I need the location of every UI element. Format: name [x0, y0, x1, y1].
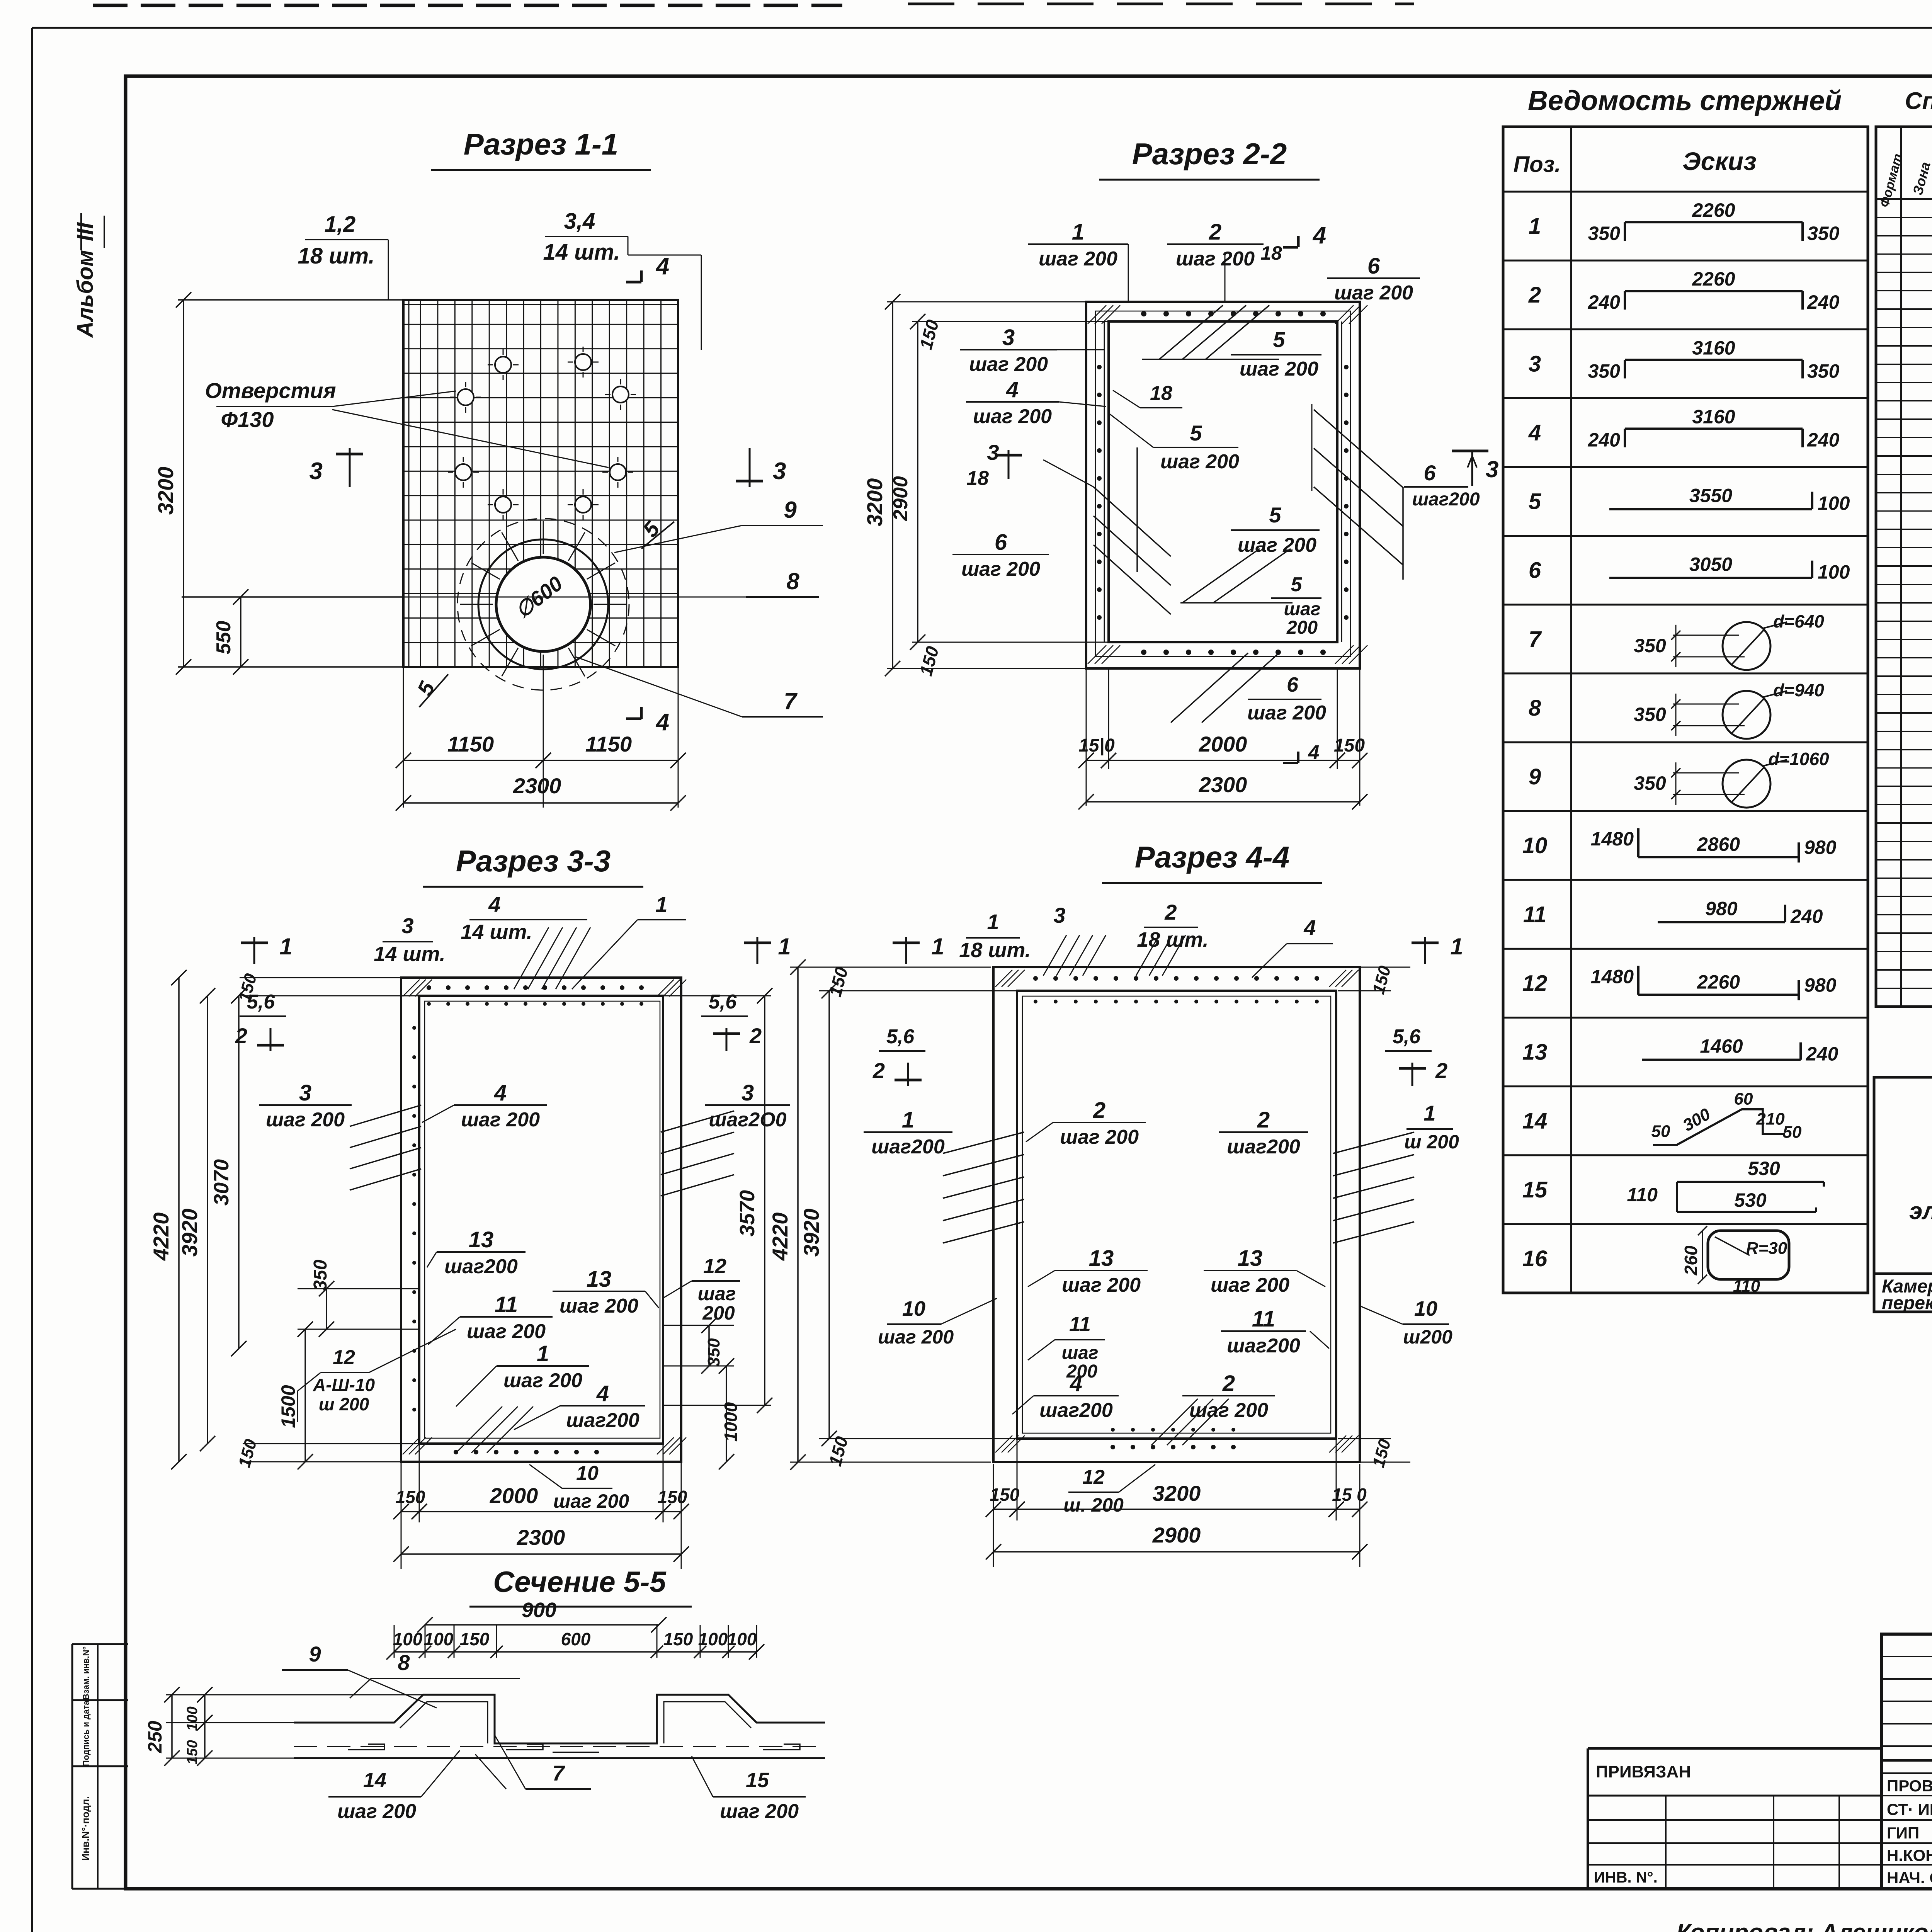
svg-text:Альбом: Альбом — [73, 250, 98, 338]
section 2-2 bottom inner bundle — [1182, 549, 1260, 603]
svg-text:3920: 3920 — [177, 1209, 202, 1257]
svg-text:5: 5 — [1269, 503, 1281, 527]
svg-text:1480: 1480 — [1591, 828, 1634, 850]
svg-text:3160: 3160 — [1692, 406, 1735, 427]
svg-text:1: 1 — [279, 934, 292, 959]
svg-text:100: 100 — [1818, 493, 1850, 514]
svg-text:150: 150 — [396, 1487, 425, 1507]
svg-text:4: 4 — [494, 1080, 507, 1105]
bar sketch pos 4 — [1624, 429, 1626, 447]
svg-text:шаг 200: шаг 200 — [878, 1326, 954, 1348]
section 3-3 bottom dims — [401, 1463, 402, 1569]
section 4-4 left dims — [790, 967, 991, 968]
table Vedomost sterzhney grid — [1503, 127, 1868, 1293]
svg-text:350: 350 — [1634, 704, 1666, 725]
svg-text:980: 980 — [1804, 974, 1837, 996]
section 4-4 bottom dims — [993, 1464, 994, 1567]
section 1-1 bottom dims — [403, 667, 404, 808]
section 2-2 rebar dots top and bottom — [1141, 311, 1146, 316]
svg-text:15|0: 15|0 — [1078, 735, 1115, 756]
svg-text:элемента: элемента — [1909, 1198, 1932, 1225]
svg-text:4: 4 — [1303, 915, 1316, 940]
svg-text:шаг 200: шаг 200 — [973, 405, 1052, 428]
svg-text:шаг200: шаг200 — [1412, 489, 1480, 510]
svg-text:1: 1 — [902, 1107, 914, 1133]
svg-text:100: 100 — [1818, 561, 1850, 583]
svg-text:3: 3 — [1486, 456, 1498, 482]
section 1-1 cut mark 3 left — [349, 448, 351, 487]
bar sketch pos 12 — [1637, 966, 1639, 995]
svg-text:900: 900 — [522, 1599, 556, 1622]
svg-text:7: 7 — [552, 1761, 565, 1785]
svg-text:2: 2 — [1257, 1107, 1270, 1133]
svg-text:ИНВ. N°.: ИНВ. N°. — [1594, 1869, 1658, 1886]
section 1-1 dim 550 — [182, 596, 403, 598]
svg-text:4220: 4220 — [149, 1213, 173, 1261]
svg-text:шаг 200: шаг 200 — [1240, 358, 1318, 380]
svg-text:150: 150 — [990, 1485, 1020, 1505]
bar sketch pos 14 (bent bar) — [1653, 1109, 1785, 1145]
svg-text:Инв.N°·подл.: Инв.N°·подл. — [80, 1796, 91, 1861]
svg-text:Подпись и дата: Подпись и дата — [81, 1700, 91, 1766]
svg-text:2260: 2260 — [1692, 268, 1735, 290]
svg-text:3200: 3200 — [862, 478, 887, 527]
bar sketch pos 16 (plate R=30) — [1708, 1231, 1789, 1279]
svg-text:шаг 200: шаг 200 — [461, 1109, 540, 1131]
section 1-1 center line through circle — [241, 597, 802, 598]
svg-text:шаг 200: шаг 200 — [1238, 534, 1316, 556]
section 3-3 right dim 3570 — [664, 995, 771, 997]
svg-text:5: 5 — [1291, 573, 1303, 596]
svg-text:ш200: ш200 — [1403, 1326, 1452, 1348]
section 1-1 slab with mesh — [403, 300, 678, 667]
svg-text:Разрез 4-4: Разрез 4-4 — [1135, 840, 1289, 874]
svg-text:3: 3 — [401, 913, 413, 938]
svg-text:шаг 200: шаг 200 — [1247, 702, 1326, 724]
section 4-4 wall box — [993, 967, 1360, 1462]
svg-text:350: 350 — [1634, 635, 1666, 656]
svg-text:4: 4 — [1006, 377, 1019, 402]
bar sketch pos 1 — [1624, 222, 1626, 241]
svg-text:3050: 3050 — [1689, 554, 1732, 575]
svg-text:1: 1 — [1072, 219, 1084, 245]
svg-text:шаг 200: шаг 200 — [1176, 248, 1255, 270]
svg-text:4220: 4220 — [768, 1213, 792, 1261]
svg-text:3160: 3160 — [1692, 337, 1735, 359]
section 2-2 wall box — [1086, 302, 1360, 668]
svg-text:шаг 200: шаг 200 — [503, 1369, 582, 1392]
section 2-2 left bundle diagonals — [1094, 487, 1171, 556]
svg-text:350: 350 — [1634, 772, 1666, 794]
svg-text:110: 110 — [1733, 1277, 1760, 1296]
svg-text:2000: 2000 — [490, 1483, 538, 1508]
svg-text:10: 10 — [902, 1297, 925, 1320]
svg-text:4: 4 — [1312, 222, 1326, 249]
svg-text:1150: 1150 — [585, 732, 632, 756]
svg-text:3: 3 — [987, 440, 999, 464]
svg-text:7: 7 — [1529, 627, 1542, 652]
svg-text:18: 18 — [1150, 382, 1172, 405]
svg-text:200: 200 — [702, 1302, 735, 1324]
svg-text:2: 2 — [1164, 900, 1177, 924]
section 2-2 below bundle — [1171, 653, 1248, 723]
svg-text:350: 350 — [1588, 223, 1621, 244]
svg-text:1: 1 — [931, 934, 944, 959]
svg-text:50: 50 — [1651, 1122, 1670, 1141]
bar sketch pos 13 — [1642, 1059, 1801, 1061]
svg-text:2900: 2900 — [1152, 1523, 1201, 1547]
svg-text:3070: 3070 — [210, 1159, 233, 1206]
svg-text:18 шт.: 18 шт. — [1137, 928, 1208, 951]
svg-text:шаг200: шаг200 — [871, 1136, 945, 1158]
section 4-4 corner hatch — [995, 970, 1012, 987]
section 5-5 small hooks — [348, 1744, 384, 1750]
svg-text:350: 350 — [310, 1260, 331, 1291]
svg-text:10: 10 — [1414, 1297, 1437, 1320]
svg-text:шаг 200: шаг 200 — [1039, 248, 1117, 270]
svg-text:3200: 3200 — [1153, 1481, 1201, 1505]
svg-text:12: 12 — [1522, 971, 1548, 996]
section 4-4 top rebar dots two rows — [1033, 976, 1038, 981]
title block — [1881, 1634, 1932, 1889]
svg-text:2: 2 — [1528, 282, 1541, 308]
svg-text:240: 240 — [1790, 905, 1823, 927]
svg-text:4: 4 — [655, 709, 669, 736]
svg-text:3570: 3570 — [736, 1190, 759, 1236]
svg-text:1: 1 — [778, 934, 791, 959]
svg-text:3920: 3920 — [799, 1209, 823, 1257]
section 2-2 bottom dims — [1086, 668, 1087, 806]
svg-text:240: 240 — [1588, 429, 1621, 451]
svg-text:3: 3 — [310, 458, 323, 485]
svg-text:Спецификация арматурных издели: Спецификация арматурных изделий камеры, … — [1905, 88, 1932, 114]
svg-text:150: 150 — [184, 1740, 201, 1764]
svg-text:12: 12 — [1082, 1466, 1105, 1488]
svg-text:50: 50 — [1783, 1123, 1802, 1142]
svg-text:d=1060: d=1060 — [1768, 749, 1829, 769]
svg-text:10: 10 — [576, 1462, 599, 1485]
section 1-1 cut mark 4 bottom — [640, 707, 643, 719]
svg-text:14 шт.: 14 шт. — [374, 942, 445, 966]
section 2-2 right bundle — [1314, 410, 1403, 488]
svg-text:шаг 200: шаг 200 — [969, 353, 1048, 376]
svg-text:100: 100 — [393, 1629, 423, 1649]
svg-text:5,6: 5,6 — [709, 991, 737, 1013]
svg-text:Н.КОНТР: Н.КОНТР — [1887, 1846, 1932, 1864]
svg-text:3,4: 3,4 — [564, 209, 595, 234]
svg-text:Копировал: Алешикова: Копировал: Алешикова — [1676, 1919, 1932, 1932]
svg-text:150: 150 — [460, 1629, 490, 1649]
svg-text:530: 530 — [1734, 1189, 1767, 1211]
svg-text:240: 240 — [1807, 429, 1840, 451]
bar sketch pos 10 — [1637, 828, 1639, 857]
svg-text:2: 2 — [1209, 219, 1221, 245]
svg-text:18: 18 — [1260, 242, 1282, 264]
svg-text:d=940: d=940 — [1773, 680, 1824, 700]
svg-text:110: 110 — [1627, 1184, 1658, 1206]
svg-text:11: 11 — [1523, 902, 1546, 927]
svg-text:3550: 3550 — [1689, 485, 1732, 507]
svg-text:ш 200: ш 200 — [319, 1394, 369, 1414]
svg-text:R=30: R=30 — [1746, 1239, 1787, 1258]
svg-text:980: 980 — [1705, 898, 1738, 919]
svg-text:3: 3 — [1002, 325, 1015, 350]
svg-text:9: 9 — [1529, 764, 1541, 789]
svg-text:12: 12 — [333, 1346, 355, 1369]
svg-text:11: 11 — [1069, 1313, 1091, 1336]
section 3-3 left bundle — [350, 1105, 421, 1126]
svg-text:ш. 200: ш. 200 — [1063, 1494, 1124, 1516]
svg-text:2300: 2300 — [517, 1525, 565, 1549]
section 3-3 top rebar dots — [427, 985, 431, 990]
svg-text:шаг 200: шаг 200 — [266, 1109, 345, 1131]
svg-text:14 шт.: 14 шт. — [543, 240, 620, 265]
svg-text:1460: 1460 — [1700, 1036, 1743, 1057]
svg-text:шаг 200: шаг 200 — [1062, 1274, 1141, 1296]
svg-text:шаг 200: шаг 200 — [961, 558, 1040, 580]
svg-text:11: 11 — [1252, 1306, 1275, 1332]
svg-text:60: 60 — [1734, 1090, 1753, 1109]
svg-text:4: 4 — [1308, 742, 1320, 764]
svg-text:НАЧ. ОТА: НАЧ. ОТА — [1887, 1869, 1932, 1887]
svg-text:150: 150 — [1334, 735, 1365, 756]
svg-text:3: 3 — [1053, 903, 1065, 927]
svg-text:шаг200: шаг200 — [1039, 1399, 1113, 1422]
svg-text:100: 100 — [698, 1629, 728, 1649]
svg-text:1: 1 — [655, 892, 667, 917]
bar sketch pos 5 — [1609, 508, 1812, 510]
svg-text:6: 6 — [1367, 253, 1380, 279]
bar sketch pos 3 — [1624, 360, 1626, 378]
svg-text:1480: 1480 — [1591, 966, 1634, 987]
svg-text:8: 8 — [1529, 696, 1541, 721]
section 2-2 top diagonal bundle — [1159, 305, 1223, 359]
svg-text:1,2: 1,2 — [325, 212, 356, 237]
svg-text:1150: 1150 — [447, 732, 494, 756]
svg-text:Ф130: Ф130 — [221, 407, 274, 432]
svg-text:шаг200: шаг200 — [1227, 1335, 1300, 1357]
section 1-1 small holes d130 — [495, 357, 511, 373]
svg-text:3: 3 — [299, 1080, 311, 1105]
section 4-4 cut marks 1 — [905, 937, 907, 964]
svg-text:8: 8 — [786, 568, 799, 594]
svg-text:1500: 1500 — [277, 1385, 299, 1428]
svg-text:Разрез 2-2: Разрез 2-2 — [1132, 137, 1287, 171]
svg-text:14: 14 — [363, 1769, 386, 1792]
svg-text:550: 550 — [213, 621, 235, 655]
svg-text:2: 2 — [1093, 1098, 1105, 1123]
table steel consumption grid — [1874, 1077, 1932, 1312]
section 3-3 wall box — [401, 978, 681, 1462]
svg-text:шаг200: шаг200 — [1227, 1136, 1300, 1158]
svg-text:Сечение 5-5: Сечение 5-5 — [493, 1566, 667, 1599]
svg-text:6: 6 — [1423, 461, 1436, 485]
svg-text:350: 350 — [1807, 360, 1840, 382]
svg-text:13: 13 — [1522, 1040, 1548, 1065]
svg-text:3: 3 — [773, 458, 786, 485]
svg-text:5: 5 — [1529, 489, 1541, 514]
svg-text:d=640: d=640 — [1773, 611, 1824, 631]
svg-text:260: 260 — [1681, 1245, 1701, 1276]
section 3-3 cut marks 1 top — [253, 937, 255, 964]
svg-text:2260: 2260 — [1697, 971, 1740, 993]
svg-text:4: 4 — [1528, 420, 1541, 445]
svg-text:переключения: переключения — [1882, 1293, 1932, 1313]
section 1-1 cut mark 3 right — [749, 448, 751, 487]
svg-text:2260: 2260 — [1692, 199, 1735, 221]
svg-text:240: 240 — [1807, 291, 1840, 313]
left margin stamp boxes — [72, 1643, 128, 1645]
svg-text:Эскиз: Эскиз — [1682, 147, 1757, 175]
svg-text:Взам. инв.N°: Взам. инв.N° — [81, 1646, 91, 1700]
svg-text:шаг 200: шаг 200 — [560, 1295, 638, 1317]
svg-text:15: 15 — [746, 1769, 769, 1792]
svg-text:2: 2 — [1435, 1058, 1447, 1083]
svg-text:11: 11 — [495, 1292, 518, 1317]
svg-text:А-Ш-10: А-Ш-10 — [313, 1375, 375, 1395]
svg-text:18 шт.: 18 шт. — [298, 243, 374, 269]
section 2-2 cut mark 4 top — [1297, 236, 1300, 247]
svg-text:ПРИВЯЗАН: ПРИВЯЗАН — [1596, 1762, 1691, 1781]
svg-text:100: 100 — [424, 1629, 454, 1649]
svg-text:2: 2 — [749, 1024, 762, 1048]
svg-text:шаг 200: шаг 200 — [1060, 1126, 1139, 1148]
svg-text:СТ· ИНЖ: СТ· ИНЖ — [1887, 1800, 1932, 1818]
svg-text:1000: 1000 — [721, 1402, 741, 1442]
scan dashes along top edge — [93, 4, 842, 7]
svg-text:4: 4 — [596, 1381, 609, 1406]
svg-text:шаг 200: шаг 200 — [720, 1800, 799, 1823]
bar sketch pos 6 — [1609, 577, 1812, 579]
svg-text:2: 2 — [235, 1024, 247, 1048]
svg-text:13: 13 — [469, 1227, 494, 1252]
section 5-5 left dims — [166, 1694, 423, 1696]
svg-text:шаг 200: шаг 200 — [553, 1490, 629, 1512]
svg-text:530: 530 — [1748, 1158, 1780, 1179]
svg-text:4: 4 — [1070, 1371, 1082, 1396]
svg-text:3: 3 — [1529, 351, 1541, 376]
svg-text:9: 9 — [309, 1642, 321, 1666]
svg-text:2300: 2300 — [1199, 772, 1247, 797]
svg-text:шаг 200: шаг 200 — [467, 1320, 546, 1343]
svg-text:15 0: 15 0 — [1332, 1485, 1367, 1505]
svg-text:шаг200: шаг200 — [444, 1255, 518, 1278]
svg-text:5,6: 5,6 — [886, 1026, 915, 1048]
svg-text:150: 150 — [658, 1487, 687, 1507]
svg-text:2860: 2860 — [1697, 833, 1740, 855]
svg-text:210: 210 — [1756, 1110, 1785, 1129]
svg-text:шаг200: шаг200 — [566, 1409, 639, 1432]
svg-text:2: 2 — [872, 1058, 885, 1083]
svg-text:9: 9 — [784, 497, 797, 523]
svg-text:6: 6 — [995, 530, 1007, 555]
specification half-pitch lines in narrow columns — [1876, 217, 1932, 218]
svg-text:1: 1 — [1423, 1101, 1435, 1125]
svg-text:III: III — [73, 222, 98, 241]
privyazan table — [1588, 1747, 1881, 1750]
svg-text:Разрез 1-1: Разрез 1-1 — [464, 127, 618, 161]
svg-text:1: 1 — [537, 1341, 549, 1366]
svg-text:14 шт.: 14 шт. — [461, 920, 532, 944]
svg-text:ГИП: ГИП — [1887, 1824, 1919, 1842]
svg-text:250: 250 — [144, 1721, 166, 1753]
bar sketch pos 2 — [1624, 291, 1626, 310]
svg-text:240: 240 — [1588, 291, 1621, 313]
section 3-3 left dims — [240, 977, 400, 978]
section 1-1 cut mark 4 top — [640, 270, 643, 282]
svg-text:ПРОВЕР.: ПРОВЕР. — [1887, 1777, 1932, 1795]
svg-text:13: 13 — [1089, 1246, 1114, 1271]
svg-text:350: 350 — [1588, 360, 1621, 382]
section 3-3 dim 1500 left — [304, 1329, 306, 1462]
svg-text:18: 18 — [966, 467, 989, 490]
section 3-3 right dims 350 1000 — [664, 1325, 734, 1326]
svg-text:10: 10 — [1522, 833, 1548, 858]
section 5-5 profile — [294, 1695, 825, 1743]
svg-text:шаг 200: шаг 200 — [1160, 451, 1239, 473]
svg-text:7: 7 — [784, 688, 798, 714]
svg-text:шаг 200: шаг 200 — [1211, 1274, 1289, 1296]
section 3-3 corner hatch — [403, 980, 420, 997]
section 2-2 left dims — [887, 301, 1086, 303]
svg-text:5: 5 — [1273, 327, 1285, 352]
svg-text:8: 8 — [398, 1650, 410, 1675]
svg-text:6: 6 — [1287, 673, 1299, 696]
svg-text:Разрез 3-3: Разрез 3-3 — [456, 844, 611, 878]
svg-text:100: 100 — [727, 1629, 757, 1649]
svg-text:3200: 3200 — [153, 467, 178, 515]
svg-text:15: 15 — [1522, 1177, 1548, 1202]
section 1-1 left dim 3200 — [178, 299, 402, 301]
svg-text:2300: 2300 — [513, 774, 561, 798]
svg-text:13: 13 — [587, 1267, 612, 1292]
outer sheet border — [32, 27, 1932, 29]
svg-text:150: 150 — [663, 1629, 693, 1649]
svg-text:шаг2О0: шаг2О0 — [709, 1109, 786, 1131]
svg-text:2: 2 — [1222, 1371, 1235, 1396]
svg-text:шаг: шаг — [1062, 1343, 1099, 1363]
svg-text:12: 12 — [703, 1255, 726, 1278]
svg-text:шаг 200: шаг 200 — [337, 1800, 416, 1823]
svg-text:350: 350 — [1807, 223, 1840, 244]
svg-text:980: 980 — [1804, 837, 1837, 858]
section 3-3 right bundle — [661, 1111, 734, 1132]
bar sketch pos 11 — [1658, 921, 1785, 923]
svg-text:14: 14 — [1522, 1109, 1548, 1134]
svg-text:5: 5 — [1190, 421, 1202, 445]
svg-text:100: 100 — [184, 1706, 201, 1731]
svg-text:13: 13 — [1238, 1246, 1263, 1271]
svg-text:2000: 2000 — [1199, 732, 1247, 756]
svg-text:шаг: шаг — [1284, 599, 1321, 619]
svg-text:3: 3 — [742, 1080, 754, 1105]
svg-text:4: 4 — [655, 253, 669, 280]
svg-text:1: 1 — [1529, 214, 1541, 239]
svg-text:1: 1 — [1450, 934, 1463, 959]
section 4-4 left bundle — [943, 1132, 1024, 1153]
section 2-2 corner hatch — [1088, 305, 1106, 324]
svg-text:350: 350 — [704, 1338, 723, 1367]
svg-text:18 шт.: 18 шт. — [959, 939, 1031, 962]
svg-text:16: 16 — [1522, 1246, 1548, 1271]
svg-text:Ведомость стержней: Ведомость стержней — [1528, 85, 1842, 116]
section 4-4 right dims 150 — [1361, 967, 1410, 968]
section 4-4 right bundle — [1333, 1132, 1414, 1153]
svg-text:Поз.: Поз. — [1514, 152, 1561, 177]
svg-text:Отверстия: Отверстия — [205, 378, 336, 403]
svg-text:шаг 200: шаг 200 — [1334, 282, 1413, 304]
svg-text:6: 6 — [1529, 558, 1541, 583]
